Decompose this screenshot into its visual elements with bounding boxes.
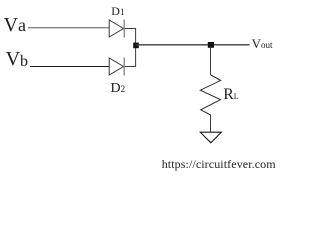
- wire node to Vout: [136, 44, 250, 46]
- label Vb: [6, 49, 28, 69]
- label Vout: [252, 37, 273, 50]
- wire Vb input: [30, 66, 109, 68]
- label Va: [4, 15, 26, 35]
- diode D1: [109, 20, 124, 38]
- ground: [200, 132, 221, 143]
- diode D2: [109, 58, 124, 76]
- label D1: [111, 5, 124, 17]
- label RL: [223, 87, 238, 103]
- resistor RL: [200, 75, 220, 115]
- wire node to resistor: [210, 47, 212, 75]
- node junction J1: [133, 43, 139, 49]
- wire Va input: [28, 27, 109, 29]
- label D2: [111, 82, 126, 96]
- wire D1 cathode to node: [125, 29, 136, 45]
- wire D2 cathode to node: [125, 46, 136, 67]
- wire resistor to ground: [210, 115, 212, 132]
- watermark url: [162, 158, 276, 170]
- node junction J2: [208, 42, 214, 48]
